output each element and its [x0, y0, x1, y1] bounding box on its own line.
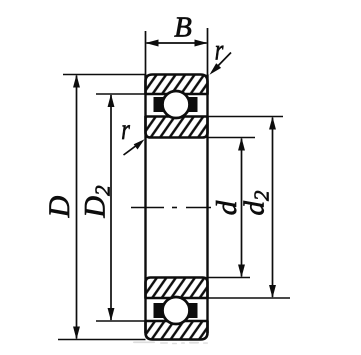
extension line, top inner shoulder diameter d2: [208, 116, 284, 118]
svg-text:r: r: [121, 112, 130, 146]
horizontal centerline (dash-dot axis): [131, 207, 211, 209]
inner ring lower section (hatched, rounded bore corners): [146, 278, 208, 299]
ball, upper section: [163, 91, 190, 118]
extension line, top shoulder diameter D2: [96, 93, 146, 95]
leader arrow for r, left: [124, 139, 145, 155]
dimension line D2 with arrowheads: [108, 94, 115, 321]
left side face line of bearing (with B extension above): [145, 31, 147, 333]
dimension line D with arrowheads: [73, 75, 80, 340]
dimension line d2 with arrowheads: [269, 117, 276, 299]
right side face line of bearing (with B extension above): [207, 28, 209, 333]
cage (retainer) blocks, lower section: [154, 303, 198, 318]
dimension line d with arrowheads: [238, 138, 245, 278]
extension line, bottom inner shoulder diameter d2: [208, 297, 291, 299]
extension line, top bore diameter d: [208, 137, 256, 139]
leader arrow for r, top right: [210, 53, 232, 75]
dimension line B with arrowheads: [146, 40, 208, 47]
outer ring upper section (hatched, rounded outer corners): [146, 75, 208, 95]
ball, lower section: [163, 297, 190, 324]
inner ring upper section (hatched, rounded bore corners): [146, 117, 208, 138]
extension line, bottom bore diameter d: [208, 277, 251, 279]
scan smudge under bearing: [133, 342, 208, 345]
cage (retainer) blocks, upper section: [154, 97, 198, 112]
extension line, bottom shoulder diameter D2: [96, 320, 146, 322]
outer ring lower section (hatched, rounded outer corners): [146, 321, 208, 340]
svg-text:B: B: [174, 12, 192, 44]
extension line, bottom of outer diameter D: [58, 339, 146, 341]
extension line, top of outer diameter D: [63, 74, 146, 76]
svg-text:D: D: [43, 195, 76, 218]
